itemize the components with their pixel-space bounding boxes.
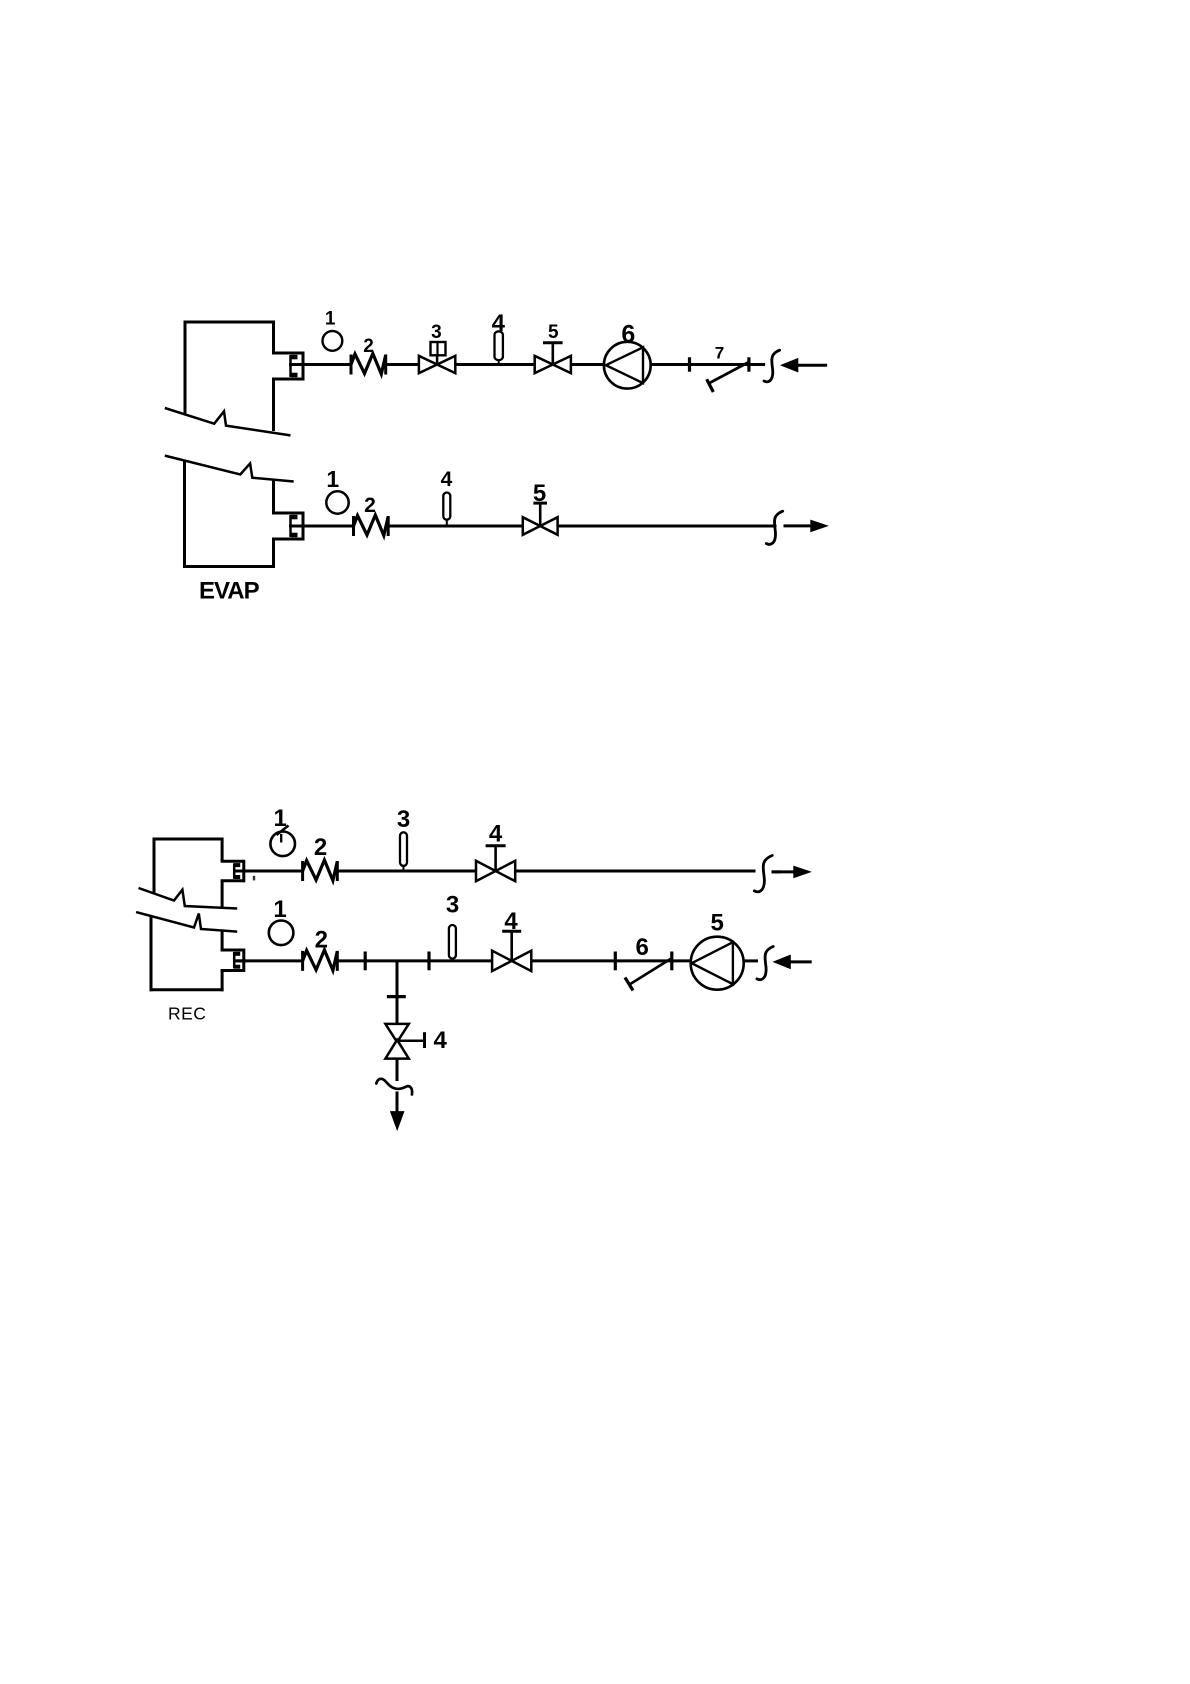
label 4 (drain valve) [434,1027,448,1054]
wire EVAP1 pump 6 to break [651,363,766,366]
label 4 (EVAP1 thermometer) [492,310,506,337]
thermometer 3 on REC line 1 [400,832,407,871]
label 2 (REC2 flex) [315,927,328,954]
wire EVAP1 valve 3 to valve 5 [455,363,534,366]
label 2 (EVAP2 flex) [364,494,376,517]
label 1 (REC2 gauge) [273,896,286,923]
svg-text:6: 6 [621,321,635,349]
svg-text:2: 2 [363,336,374,357]
tick on drain branch [387,995,406,998]
label 7 (EVAP1 lever valve) [715,343,724,362]
tick after tee on REC line 2 [427,952,430,971]
label 2 (REC1 flex) [314,834,327,861]
label 4 (REC2 valve) [504,908,518,935]
tick before tee on REC line 2 [364,952,367,971]
label REC [168,1004,206,1024]
svg-text:4: 4 [489,821,503,848]
break line EVAP upper [165,408,291,435]
label 3 (REC2 thermometer) [446,892,459,919]
wire EVAP1 valve 5 to pump 6 [571,363,604,366]
gauge 1 on EVAP line 1 [323,331,343,351]
thermometer 4 on EVAP line 2 [443,493,450,527]
wire REC1 break to arrow [772,870,782,873]
label 5 (REC2 pump) [711,910,724,937]
flow arrow out of REC line 1 [772,866,811,877]
vessel REC upper shell [154,838,222,908]
solenoid valve 3 on EVAP line 1 [419,342,455,373]
nozzle EVAP line 2 [272,512,305,541]
stray scan speck near REC nozzle [253,876,255,881]
svg-text:4: 4 [492,310,506,337]
pipe break symbol REC line 1 [754,855,772,891]
wire EVAP2 valve 5 to break [558,525,777,528]
wire EVAP1 flex 2 to valve 3 [386,363,419,366]
wire REC2 flex 2 to valve 4 [337,959,492,962]
wire REC2 pump 5 to break [744,959,758,962]
tick after pump on EVAP line 1 [688,357,691,371]
pipe break symbol EVAP line 2 [766,511,782,544]
gauge 1 on EVAP line 2 [326,491,348,513]
svg-text:REC: REC [168,1004,206,1024]
svg-text:1: 1 [274,805,287,832]
label 1 (REC1 gauge) [274,805,287,832]
valve 5 on EVAP line 2 [523,503,558,535]
gauge 1 on REC line 1 [270,826,295,857]
flex connector 2 on REC line 2 [303,950,338,971]
wire REC1 valve 4 to break [516,870,756,873]
svg-text:5: 5 [533,480,546,507]
label 3 (REC1 thermometer) [397,806,410,833]
label 1 (EVAP2 gauge) [326,466,339,492]
flow arrow out of drain [391,1112,404,1130]
svg-text:4: 4 [504,908,518,935]
valve 4 on REC line 1 [476,846,515,882]
svg-text:2: 2 [315,927,328,954]
tee junction to drain [396,961,399,1024]
svg-text:3: 3 [446,892,459,919]
valve 5 on EVAP line 1 [535,343,571,373]
tick at lever valve 7 [747,357,750,371]
svg-text:3: 3 [397,806,410,833]
vessel EVAP upper shell [185,321,274,432]
svg-text:2: 2 [364,494,376,517]
valve 4 on REC line 2 [492,931,531,971]
lever shut-off valve 6 on REC line 2 [625,958,672,991]
flow arrow into EVAP line 1 [781,359,827,372]
svg-text:1: 1 [273,896,286,923]
nozzle EVAP line 1 [272,352,305,381]
wire REC1 vessel to flex 2 [234,870,303,873]
vessel EVAP lower shell [183,461,275,569]
tick before lever on REC line 2 [614,952,617,971]
vessel REC lower shell [150,916,224,991]
label EVAP [199,578,260,605]
wire REC2 vessel to flex 2 [234,959,303,962]
flex connector 2 on REC line 1 [303,860,338,881]
label 6 (EVAP1 pump) [621,321,635,349]
pump 5 on REC line 2 [691,937,744,990]
pump 6 on EVAP line 1 [604,342,651,389]
wire EVAP2 flex 2 to valve 5 [388,525,522,528]
thermometer 3 on REC line 2 [449,925,456,961]
pointer to drain valve label [397,1032,424,1048]
svg-text:7: 7 [715,343,724,362]
wire drain valve to break [396,1059,399,1081]
break line REC upper [139,888,238,909]
nozzle REC line 1 [221,860,246,883]
svg-text:1: 1 [326,466,339,492]
lever shut-off valve 7 on EVAP line 1 [707,362,749,392]
wire EVAP2 vessel to flex 2 [289,525,354,528]
svg-text:5: 5 [711,910,724,937]
flow arrow out of EVAP line 2 [784,520,828,531]
label 3 (EVAP1 solenoid valve) [431,322,442,343]
tick at lever valve 6 [670,952,673,971]
svg-text:5: 5 [548,322,559,343]
label 1 (EVAP1 gauge) [325,309,336,330]
pipe break symbol on drain (horizontal) [376,1079,412,1095]
svg-text:EVAP: EVAP [199,578,260,605]
flow arrow into REC line 2 [774,955,812,968]
break line EVAP lower [165,456,294,482]
wire REC1 flex 2 to valve 4 [337,870,476,873]
label 2 (EVAP1 flex) [363,336,374,357]
break line REC lower [136,912,237,932]
gauge 1 on REC line 2 [269,921,294,946]
pipe break symbol EVAP line 1 [764,350,780,382]
pipe break symbol REC line 2 [757,946,773,979]
svg-text:2: 2 [314,834,327,861]
label 4 (EVAP2 thermometer) [441,468,453,491]
thermometer 4 on EVAP line 1 [495,331,503,364]
label 4 (REC1 valve) [489,821,503,848]
label 5 (EVAP2 valve) [533,480,546,507]
nozzle REC line 2 [221,949,246,973]
flex connector 2 on EVAP line 2 [354,515,389,536]
svg-text:4: 4 [434,1027,448,1054]
drain valve 4 (vertical) [385,1024,408,1059]
wire drain break to arrow [396,1092,399,1115]
label 5 (EVAP1 valve) [548,322,559,343]
wire REC2 valve 4 to pump 5 [531,959,691,962]
flex connector 2 on EVAP line 1 [351,354,386,375]
svg-text:4: 4 [441,468,453,491]
svg-text:1: 1 [325,309,336,330]
wire EVAP1 vessel to flex 2 [289,363,351,366]
svg-text:3: 3 [431,322,442,343]
label 6 (REC2 lever valve) [636,934,649,961]
svg-text:6: 6 [636,934,649,961]
